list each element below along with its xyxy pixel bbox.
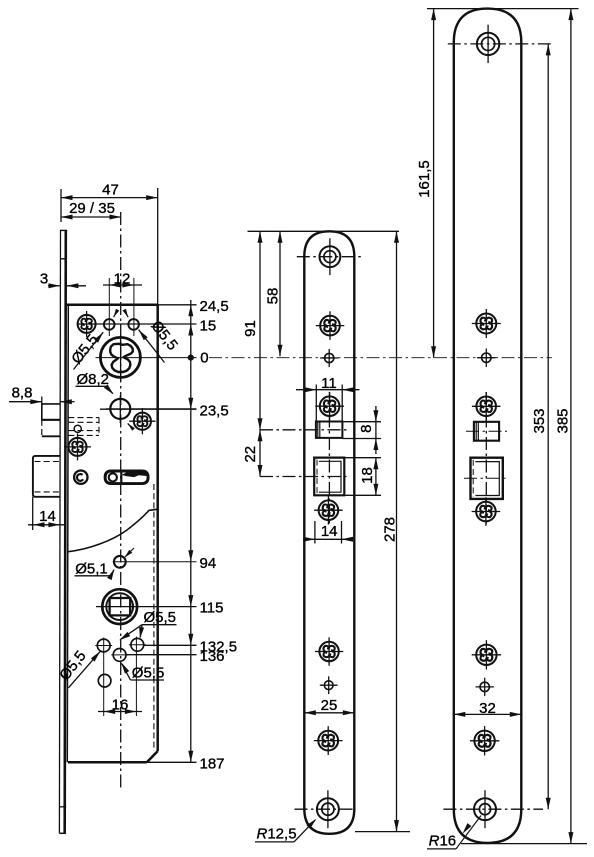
middle plate group [242, 231, 410, 842]
case bottom edge [68, 761, 147, 764]
svg-text:Ø5,5: Ø5,5 [144, 609, 177, 626]
svg-text:Ø5,1: Ø5,1 [75, 560, 108, 577]
dim 14 extension lines [314, 521, 316, 544]
svg-text:18: 18 [359, 467, 376, 484]
middle plate flower 6 [314, 726, 343, 755]
dim 16 line [98, 711, 142, 713]
middle plate top countersunk hole [297, 238, 361, 275]
latch bolt divider [42, 419, 61, 421]
right latch cutout lip lines [475, 422, 477, 441]
deadbolt cutout inner line [319, 461, 341, 492]
dim 47 extension line right (case right edge extended) [157, 188, 159, 305]
hole D8.2 [110, 399, 130, 419]
chain dimension vertical line [190, 300, 192, 762]
middle plate flower 3 [315, 392, 344, 421]
svg-text:187: 187 [200, 756, 225, 773]
nut follower square [110, 598, 131, 615]
label line 115 [96, 606, 197, 608]
dim 11 line [296, 389, 360, 391]
capsule slot [105, 471, 148, 484]
svg-text:115: 115 [200, 600, 224, 617]
svg-text:11: 11 [321, 375, 337, 392]
dim 161,5 line [433, 9, 435, 358]
left view group [9, 181, 237, 833]
dim 58 line [279, 231, 281, 356]
hole D5.5 left of pair [104, 319, 115, 330]
middle plate bottom countersunk hole [295, 790, 356, 828]
screw flower faceplate mid [64, 433, 91, 460]
label R12,5 underline and leader [255, 841, 294, 843]
label line 132.5 [144, 644, 197, 646]
deadbolt dim extension [32, 497, 34, 530]
dim 25 line [304, 712, 354, 714]
leader for D5.5 upper-left [74, 332, 104, 369]
latch bolt head upper [42, 404, 61, 420]
dim 11 extension lines [315, 385, 317, 422]
dim 18 extension lines [344, 457, 381, 459]
dim 278 bottom extension [355, 831, 410, 833]
right plate cutout centerline vertical [485, 392, 487, 525]
small pin circle in spring box [74, 425, 81, 432]
leader for D5.5 upper-right [139, 330, 165, 363]
right plate flower 5 [472, 640, 501, 669]
leader for D5.5 lower-mid [122, 664, 131, 680]
dim 12 line [103, 284, 142, 286]
svg-text:R12,5: R12,5 [257, 825, 297, 842]
dim 91 line [259, 231, 261, 429]
leader to trio hole C [140, 625, 142, 638]
label line 24.5 [158, 304, 197, 306]
svg-text:32: 32 [479, 700, 496, 717]
dim 32 line [454, 713, 522, 715]
svg-text:47: 47 [102, 181, 119, 198]
middle plate deadbolt cutout [314, 458, 344, 496]
right deadbolt cutout inner line [475, 462, 499, 496]
svg-text:161,5: 161,5 [416, 160, 433, 198]
svg-text:8: 8 [358, 425, 375, 433]
case inner curve [68, 509, 158, 552]
case left edge (behind faceplate) [67, 305, 68, 763]
chain origin dot [188, 355, 193, 360]
spring box hidden outline [68, 417, 99, 419]
svg-text:94: 94 [200, 555, 217, 572]
svg-text:23,5: 23,5 [200, 402, 229, 419]
dim 385 bottom extension [461, 843, 587, 845]
dim 29/35 line [61, 216, 121, 218]
case top edge [67, 304, 158, 307]
nut follower outer [102, 589, 137, 624]
lock vertical centerline [120, 212, 122, 789]
arrow onto D8.2 lower right [128, 423, 133, 428]
svg-text:25: 25 [321, 697, 338, 714]
right deadbolt cutout horizontal centerline [464, 477, 509, 479]
zero reference dash-dot line [209, 357, 552, 359]
dim 12 extension line right [133, 278, 135, 336]
middle plate latch cutout [316, 422, 343, 438]
dim 8 line [375, 406, 377, 454]
hole D5.5 right of pair [128, 319, 139, 330]
right plate latch cutout [474, 422, 499, 441]
dim 16 extension right [135, 637, 137, 717]
case hidden right edge [153, 484, 155, 751]
case right edge [156, 305, 159, 751]
leader for D8.2 [106, 386, 113, 393]
dim 8.8 line [9, 401, 42, 403]
svg-text:R16: R16 [429, 832, 457, 849]
capsule pin [109, 473, 117, 481]
case bottom chamfer [147, 751, 158, 762]
right plate small hole at zero [477, 349, 495, 367]
deadbolt head [33, 456, 60, 497]
latch bolt head lower dashed edge [41, 420, 43, 437]
right plate top extension line [427, 8, 579, 10]
middle plate small hole at zero [320, 349, 338, 367]
svg-text:15: 15 [200, 317, 217, 334]
arrow onto D5.1 from upper right [125, 548, 134, 557]
right plate flower 3 [472, 392, 501, 421]
latch bolt bottom [42, 435, 61, 437]
svg-text:14: 14 [321, 523, 338, 540]
screw hole flower top-left [78, 315, 96, 333]
cylinder vertical centerline solid [120, 335, 122, 381]
label D8.2 underline [76, 385, 107, 387]
dim 22 line [259, 430, 261, 477]
right plate flower 4 [472, 497, 501, 526]
label line 187 (bottom extension) [147, 761, 197, 763]
trio hole B [113, 649, 126, 662]
dim 16 extension left [103, 638, 105, 717]
right latch cutout horizontal centerline [466, 430, 507, 432]
label R16 underline and leader [427, 848, 456, 850]
right deadbolt hidden lip [472, 460, 474, 497]
faceplate right edge [65, 230, 66, 833]
dim 385 line [570, 9, 572, 844]
screw flower mid-right [129, 408, 155, 434]
dim 47 line [61, 197, 158, 199]
right plate top countersunk hole [448, 25, 553, 63]
dim 18 line [375, 458, 377, 496]
middle plate flower 4 [314, 496, 343, 525]
faceplate top cap top edge [60, 229, 67, 231]
nut follower inner ring [106, 593, 133, 620]
svg-text:58: 58 [265, 288, 282, 305]
right plate bottom countersunk hole [443, 790, 543, 828]
right plate small hole lower [476, 678, 494, 696]
right plate group [416, 9, 587, 850]
cylinder 0-centerline [96, 357, 197, 359]
svg-text:24,5: 24,5 [200, 298, 229, 315]
dim 278 line [396, 231, 398, 831]
right plate flower 6 [470, 726, 499, 755]
deadbolt cutout centerline [260, 476, 348, 478]
svg-text:0: 0 [200, 350, 208, 367]
faceplate bottom end [59, 832, 66, 834]
leader arrow onto left pair hole [114, 310, 118, 317]
trio hole C [131, 638, 144, 651]
dim 47 extension line left [60, 189, 62, 222]
middle plate top extension line [248, 230, 400, 232]
lone hole [98, 674, 111, 687]
svg-text:Ø8,2: Ø8,2 [77, 371, 110, 388]
capsule centerline bar [120, 471, 122, 483]
hole D5.1 [114, 556, 126, 568]
hole 15-line [77, 323, 197, 325]
screw hole top-left vertical centerline [86, 311, 88, 337]
svg-text:12: 12 [114, 270, 131, 287]
pin circle with crescent [74, 471, 87, 484]
middle plate flower 5 [315, 637, 343, 665]
svg-text:353: 353 [531, 408, 548, 433]
dim 14 line [28, 524, 64, 526]
faceplate left edge [59, 230, 60, 833]
leader to trio hole B from label [120, 625, 142, 640]
leader for D5.5 lower-left [69, 651, 101, 688]
middle plate flower 2 [316, 311, 345, 340]
label line 136 [127, 654, 197, 656]
hole D8.2 crosshair [106, 408, 197, 410]
dim 8 extension lines [342, 421, 381, 423]
svg-text:3: 3 [40, 270, 48, 287]
deadbolt hidden lines [35, 461, 61, 463]
leader arrow onto right pair hole [124, 310, 128, 317]
latch bolt extension line [41, 397, 43, 405]
faceplate bottom tick [60, 806, 67, 808]
middle plate cutout centerline vertical [328, 392, 330, 524]
right plate deadbolt cutout [471, 458, 503, 499]
trio hole A [97, 639, 110, 652]
right plate flower 2 [472, 309, 501, 338]
right plate outline [454, 9, 522, 843]
cylinder profile cutout [110, 344, 133, 372]
latch cutout centerline [260, 429, 348, 431]
svg-text:385: 385 [555, 408, 572, 433]
capsule lever inner [123, 472, 146, 477]
dim 14 line (middle plate) [303, 538, 353, 540]
svg-text:91: 91 [242, 320, 259, 337]
dim 353 line [547, 44, 549, 809]
svg-text:136: 136 [200, 648, 225, 665]
latch cutout lip lines [317, 422, 319, 438]
dim 3 line [48, 285, 60, 287]
label line 94 [113, 561, 197, 563]
cylinder hole outer [100, 337, 140, 377]
svg-text:14: 14 [39, 508, 56, 525]
middle plate small hole lower [320, 676, 338, 694]
label line 23.5 [100, 408, 197, 410]
middle plate outline [304, 231, 354, 834]
deadbolt cutout hidden lip [316, 460, 318, 495]
svg-text:29 / 35: 29 / 35 [69, 200, 115, 217]
dim 12 extension line left [108, 278, 110, 336]
label D5.1 underline and leader [75, 575, 112, 577]
faceplate cap tick [60, 258, 67, 260]
svg-text:278: 278 [382, 517, 399, 542]
chain arrows [188, 305, 193, 317]
svg-text:22: 22 [242, 446, 259, 463]
svg-text:16: 16 [112, 696, 129, 713]
svg-text:8,8: 8,8 [12, 385, 33, 402]
